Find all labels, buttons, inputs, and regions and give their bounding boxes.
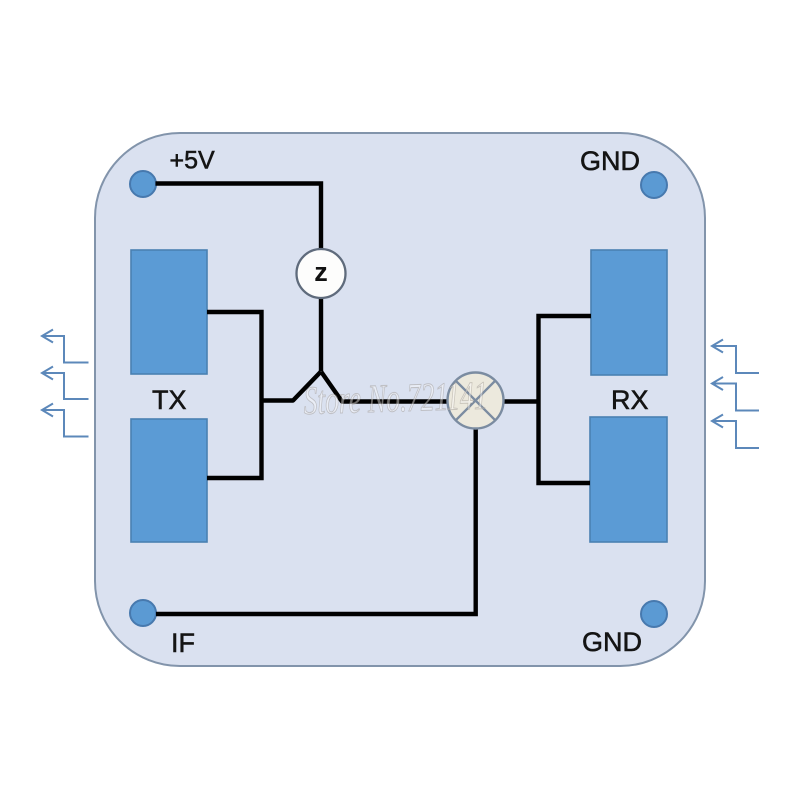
svg-text:+5V: +5V — [170, 147, 216, 175]
svg-text:GND: GND — [582, 627, 642, 657]
RX patch antenna lower — [590, 417, 667, 542]
left emission arrow 3 — [42, 404, 89, 437]
svg-text:GND: GND — [580, 146, 640, 176]
mounting hole IF (bottom-left) — [130, 600, 156, 626]
wire oscillator to divider — [319, 298, 323, 371]
wire divider left branch — [262, 372, 322, 401]
mounting hole GND (top-right) — [641, 172, 667, 198]
TX patch antenna upper — [131, 250, 207, 374]
RX patch antenna upper — [591, 250, 667, 375]
wire mixer to IF — [156, 428, 476, 614]
svg-text:RX: RX — [611, 385, 649, 415]
mounting hole GND (bottom-right) — [641, 601, 667, 627]
wire RX bus — [539, 316, 592, 483]
right reception arrow 3 — [712, 415, 759, 449]
right reception arrow 2 — [712, 377, 759, 411]
left emission arrow 2 — [42, 367, 89, 400]
wire TX upper feed — [207, 312, 262, 478]
wire +5V to oscillator — [156, 184, 322, 250]
oscillator Z — [297, 249, 346, 298]
mixer — [448, 373, 504, 429]
svg-text:TX: TX — [152, 385, 187, 415]
left emission arrow 1 — [42, 330, 89, 363]
mounting hole +5V (top-left) — [130, 171, 156, 197]
wire mixer to RX bus — [503, 399, 539, 403]
wire divider right branch to mixer — [321, 372, 448, 402]
right reception arrow 1 — [712, 340, 759, 374]
svg-text:IF: IF — [171, 628, 195, 658]
svg-text:Store No.721141: Store No.721141 — [303, 374, 488, 424]
TX patch antenna lower — [131, 419, 207, 542]
module board outline — [95, 133, 705, 666]
svg-text:z: z — [314, 257, 328, 287]
